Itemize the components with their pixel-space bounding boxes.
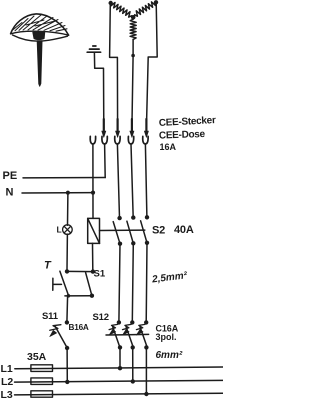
junction on middle wire	[131, 54, 135, 58]
node: right winding terminal	[154, 0, 158, 4]
contactor S2 pole 1 contact	[113, 216, 122, 246]
fuse F3 35A on L3	[31, 391, 53, 397]
heater winding resistor, middle phase	[130, 19, 136, 39]
L3 phase bus wire	[15, 393, 224, 395]
wire N rail down to lamp L	[67, 193, 69, 226]
node S1 right terminal	[91, 269, 95, 273]
svg-text:S11: S11	[42, 311, 59, 322]
node S1 output left	[67, 294, 71, 298]
svg-text:PE: PE	[3, 170, 18, 182]
circuit breaker S12 pole 1	[109, 320, 122, 349]
svg-text:CEE-Stecker: CEE-Stecker	[159, 115, 217, 129]
wire socket L1 down to S2 pole 1	[117, 144, 119, 218]
wire from middle winding down to plug pin	[132, 39, 133, 128]
fuse F1 35A on L1	[31, 365, 53, 372]
wire from ground symbol with jog to PE plug pin	[94, 53, 103, 129]
timer T actuator bracket	[53, 278, 62, 290]
svg-text:B16A: B16A	[69, 323, 89, 332]
CEE socket contact L3 (cup)	[143, 136, 148, 144]
contactor coil S2 (rectangle with diagonal)	[88, 218, 100, 243]
junction N rail to coil branch	[91, 191, 95, 195]
junction N rail to lamp branch	[66, 191, 70, 195]
wire S2 pole 2 down to breaker S12 pole 2	[132, 243, 133, 322]
svg-text:6mm²: 6mm²	[156, 350, 183, 361]
circuit breaker S11 B16A	[50, 320, 70, 350]
node: left winding terminal	[109, 1, 113, 5]
N rail wire	[22, 192, 93, 194]
mechanical coupling bar of S12	[106, 333, 149, 336]
CEE socket contact PE (cup)	[102, 136, 107, 144]
star point junction	[131, 15, 136, 20]
fuse F2 35A on L2	[31, 378, 53, 385]
contactor S2 pole 3 contact	[141, 215, 150, 245]
contactor S2 pole 2 contact	[127, 215, 136, 245]
svg-text:L1: L1	[1, 363, 13, 375]
CEE plug pin phase 1 (arrow)	[116, 119, 120, 137]
svg-text:2,5mm²: 2,5mm²	[151, 270, 189, 285]
wire socket L3 down to S2 pole 3	[145, 144, 147, 217]
L1 phase bus wire	[15, 367, 223, 369]
node S1 left terminal	[65, 269, 69, 273]
switch S1 output bar	[65, 295, 92, 297]
svg-text:L: L	[57, 225, 62, 235]
ground symbol (earth of appliance)	[87, 46, 100, 52]
heater winding resistor, right phase	[135, 2, 156, 16]
circuit breaker S12 pole 2	[122, 320, 134, 349]
wire S2 pole 1 down to breaker S12 pole 1	[119, 244, 120, 323]
junction S12 pole 2 to L2	[131, 379, 135, 383]
svg-text:16A: 16A	[160, 142, 177, 152]
wire from left winding down with jog to plug pin	[110, 3, 118, 129]
CEE plug pin PE (arrow)	[102, 119, 106, 137]
wire socket N down to N rail and contactor coil	[92, 144, 94, 218]
wire S1 down to breaker S11	[66, 296, 69, 322]
PE rail wire	[23, 177, 105, 179]
switch S1 blade left	[60, 271, 69, 296]
svg-text:CEE-Dose: CEE-Dose	[159, 129, 206, 142]
wire S12 pole 3 down to L3 bus	[145, 347, 147, 394]
CEE plug pin phase 3 (arrow)	[144, 119, 148, 137]
switch S1 blade right	[86, 273, 92, 296]
switch S1 input bar (lamp + coil)	[67, 270, 93, 272]
svg-text:3pol.: 3pol.	[156, 332, 177, 342]
wire lamp down to switch S1	[66, 234, 68, 270]
wire socket L2 down to S2 pole 2	[131, 144, 133, 217]
svg-text:N: N	[6, 186, 14, 198]
heater winding resistor, left phase	[111, 3, 132, 18]
svg-text:35A: 35A	[27, 351, 47, 363]
wire S2 pole 3 down to breaker S12 pole 3	[145, 243, 148, 322]
wire S12 pole 1 down to L1 bus	[119, 347, 121, 368]
wire S12 pole 2 down to L2 bus	[132, 347, 134, 381]
wire socket PE down to PE rail	[104, 144, 107, 177]
CEE plug pin phase 2 (arrow)	[130, 119, 134, 137]
lamp L (circle with cross)	[63, 225, 73, 235]
svg-text:40A: 40A	[174, 224, 194, 236]
L2 phase bus wire	[15, 380, 224, 382]
node S1 output right	[90, 294, 94, 298]
circuit breaker S12 pole 3	[136, 320, 148, 349]
mushroom lamp appliance sketch	[11, 14, 69, 86]
junction S12 pole 3 to L3	[144, 392, 148, 396]
CEE socket contact L2 (cup)	[128, 136, 133, 144]
svg-text:L2: L2	[1, 376, 13, 388]
svg-text:S12: S12	[93, 312, 109, 323]
mechanical link coil to S2 contacts	[100, 229, 145, 231]
wire coil down to switch S1	[92, 243, 94, 269]
wire from right winding down with jog to plug pin	[146, 3, 157, 129]
svg-text:S2: S2	[152, 225, 165, 237]
junction S11 to L2	[65, 380, 69, 384]
CEE socket contact L1 (cup)	[115, 136, 120, 144]
svg-text:L3: L3	[1, 389, 13, 400]
svg-text:S1: S1	[94, 269, 106, 280]
svg-text:T: T	[44, 259, 52, 271]
wire S11 down to L2 bus	[66, 348, 68, 382]
junction S12 pole 1 to L1	[118, 366, 122, 370]
CEE socket contact N (cup)	[90, 136, 95, 144]
